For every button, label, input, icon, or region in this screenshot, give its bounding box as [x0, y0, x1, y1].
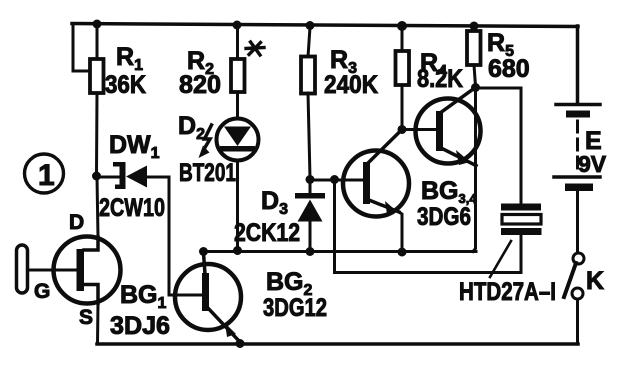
- wire right vertical to battery: [576, 26, 580, 104]
- svg-text:240K: 240K: [324, 71, 378, 99]
- svg-text:BG1: BG1: [120, 281, 167, 312]
- node dot bus left end BG2 collector: [199, 247, 208, 256]
- wire BG1 drain up to node: [97, 177, 98, 237]
- svg-text:G: G: [34, 280, 50, 303]
- resistor R4: [396, 28, 410, 128]
- svg-text:D3: D3: [261, 187, 288, 218]
- wire BG4 base: [402, 128, 436, 131]
- diode D3 2CK12: [295, 180, 325, 250]
- wire top supply rail: [72, 24, 578, 27]
- svg-text:1: 1: [38, 159, 55, 192]
- svg-text:K: K: [586, 267, 604, 295]
- wire bottom ground rail: [97, 342, 578, 346]
- svg-text:BG3,4: BG3,4: [421, 177, 477, 206]
- wire gate G: [28, 269, 77, 272]
- node junction dot top R1: [93, 20, 102, 29]
- svg-text:HTD27A–I: HTD27A–I: [459, 278, 556, 306]
- svg-text:2CK12: 2CK12: [234, 219, 300, 247]
- wire DW1 anode-side from node: [97, 176, 120, 179]
- wire collector node down to bus: [473, 88, 476, 252]
- node dot D2 on bus: [233, 246, 242, 255]
- node dot R5 bottom: [471, 83, 480, 92]
- svg-text:S: S: [79, 306, 93, 329]
- svg-text:R1: R1: [116, 43, 143, 74]
- wire mid horizontal bus y251: [203, 250, 476, 253]
- node dot BG2 emitter on ground rail: [236, 339, 245, 348]
- piezo buzzer HTD27A-I: [501, 204, 542, 273]
- wire node to BG3 base: [310, 179, 364, 182]
- svg-text:3DG12: 3DG12: [263, 294, 327, 322]
- resistor R1: [90, 26, 104, 174]
- svg-text:D2: D2: [178, 112, 205, 143]
- svg-text:820: 820: [179, 71, 221, 99]
- resistor R5: [467, 27, 481, 86]
- svg-text:3DG6: 3DG6: [417, 203, 471, 231]
- node junction dot top R4: [397, 21, 407, 31]
- svg-text:9V: 9V: [578, 151, 607, 177]
- node dot D3 on bus: [306, 247, 315, 256]
- node junction dot top R2: [233, 21, 242, 30]
- node dot D3 top: [306, 175, 315, 184]
- node junction dot top R3: [306, 21, 315, 30]
- node dot feedback tap: [330, 175, 339, 184]
- wire feedback vertical x335: [333, 181, 336, 273]
- svg-text:DW1: DW1: [109, 131, 160, 162]
- svg-text:D: D: [69, 211, 84, 234]
- wire feedback horizontal to buzzer: [335, 271, 522, 274]
- node dot BG3 emitter on bus: [398, 248, 407, 257]
- wire collector node to buzzer top: [476, 88, 522, 204]
- node dot DW1 tap: [92, 172, 101, 181]
- label star: [246, 42, 264, 55]
- transistor BG2 3DG12: [175, 253, 241, 342]
- svg-text:BT201: BT201: [179, 159, 236, 187]
- resistor R3: [301, 27, 315, 178]
- svg-text:680: 680: [488, 55, 530, 83]
- zener diode DW1 2CW10: [113, 162, 147, 189]
- wire BG1 source down to ground rail: [96, 303, 100, 344]
- wire DW1 to BG2 base: [147, 177, 202, 295]
- node junction dot top R5: [470, 22, 479, 31]
- svg-text:3DJ6: 3DJ6: [110, 312, 170, 340]
- switch K: [564, 253, 584, 344]
- svg-text:36K: 36K: [105, 71, 146, 99]
- touch electrode plate G: [17, 245, 28, 293]
- transistor BG1 3DJ6 (FET): [54, 237, 121, 304]
- wire R1 left bypass loop: [73, 24, 91, 71]
- svg-text:8.2K: 8.2K: [417, 65, 463, 93]
- label circled 1: [25, 154, 64, 193]
- photodiode D2 BT201: [199, 119, 259, 161]
- label pointer line: [490, 241, 511, 277]
- wire D2 cathode down: [236, 160, 239, 249]
- node dot BG4 base: [398, 125, 407, 134]
- wire BG3 emitter down to bus: [399, 212, 402, 250]
- transistor BG3: [343, 130, 409, 217]
- transistor BG4: [416, 89, 481, 166]
- resistor R2: [231, 27, 245, 119]
- svg-text:2CW10: 2CW10: [99, 194, 165, 222]
- battery E 9V: [554, 105, 600, 254]
